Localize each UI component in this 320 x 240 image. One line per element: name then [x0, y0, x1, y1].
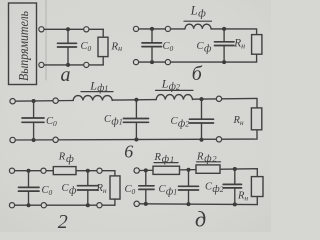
wire: circuit v top rail segment 2 [112, 99, 156, 102]
wire: circuit d bottom rail [139, 197, 257, 205]
capacitor C0 (circuit d) [139, 170, 154, 204]
wire: circuit b bottom rail [136, 54, 257, 62]
terminal: circuit g input bottom [9, 203, 14, 208]
terminal: circuit v second bottom [53, 137, 58, 142]
capacitor Cf1 (circuit d) [179, 170, 199, 204]
node: circuit g C0 bottom junction [27, 203, 31, 207]
terminal: circuit b input bottom [133, 60, 138, 65]
underline of Rf2 label [197, 161, 221, 163]
resistor Rn (circuit d) [251, 177, 263, 197]
terminal: circuit v output bottom [216, 137, 221, 142]
terminal: circuit v second top [53, 98, 58, 103]
wire: circuit d top rail [139, 169, 257, 177]
terminal: circuit b second top [165, 26, 170, 31]
resistor Rf2 (circuit d) [196, 165, 220, 173]
terminal: circuit v input top [10, 99, 15, 104]
capacitor C0 (circuit a) [58, 29, 77, 65]
inductor Lf (circuit b) [185, 24, 211, 29]
capacitor Cf1 (circuit v) [123, 100, 148, 140]
wire: circuit v bottom rail [13, 130, 257, 140]
node: circuit d Cf2 top junction [233, 167, 237, 171]
terminal: circuit v input bottom [10, 137, 15, 142]
wire: circuit v top rail segment 1 [13, 100, 74, 103]
node: circuit d C0 top junction [144, 168, 148, 172]
inductor Lf1 (circuit v) [73, 96, 112, 101]
capacitor Cf (circuit b) [215, 29, 235, 62]
node: circuit g Cf bottom junction [86, 203, 90, 207]
capacitor Cf2 (circuit d) [223, 169, 241, 204]
capacitor C0 (circuit g) [19, 171, 40, 206]
node: circuit a C0 bottom junction [66, 63, 70, 67]
svg-text:д: д [195, 207, 206, 232]
node: circuit g Cf top junction [86, 169, 90, 173]
underline of Lf2 label [156, 89, 194, 91]
svg-text:Выпрямитель: Выпрямитель [16, 11, 31, 81]
rectifier box (Выпрямитель) [9, 3, 37, 85]
node: circuit v Cf2 top junction [200, 97, 204, 101]
terminal: circuit a input top [39, 27, 44, 32]
resistor Rf (circuit g) [53, 167, 76, 175]
inductor Lf2 (circuit v) [156, 95, 192, 100]
terminal: circuit g second bottom [41, 203, 46, 208]
wire: circuit a bottom rail [41, 64, 103, 66]
node: circuit v Cf2 bottom junction [200, 138, 204, 142]
resistor Rn (circuit g) [110, 171, 120, 206]
node: circuit a C0 top junction [66, 27, 70, 31]
svg-text:6: 6 [124, 141, 133, 161]
node: circuit v Cf1 bottom junction [134, 138, 138, 142]
node: circuit b Cf top junction [222, 27, 226, 31]
paper crease line [45, 0, 47, 80]
node: circuit g C0 top junction [27, 169, 31, 173]
svg-text:б: б [192, 63, 203, 85]
terminal: circuit v output top [216, 96, 221, 101]
terminal: circuit d input top [134, 168, 139, 173]
capacitor C0 (circuit b) [142, 29, 162, 62]
terminal: circuit a input bottom [39, 62, 44, 67]
capacitor C0 (circuit v) [22, 101, 44, 140]
terminal: circuit a output top [84, 27, 89, 32]
node: circuit d C0 bottom junction [144, 202, 148, 206]
terminal: circuit g output bottom [97, 203, 102, 208]
wire: circuit b top rail left [136, 28, 185, 30]
resistor Rn (circuit b) [252, 35, 262, 55]
node: circuit v C0 top junction [32, 99, 36, 103]
resistor Rn (circuit v) [251, 108, 261, 130]
node: circuit b C0 top junction [150, 27, 154, 31]
wire: circuit b top rail right [211, 29, 257, 35]
node: circuit b Cf bottom junction [222, 60, 226, 64]
resistor Rf1 (circuit d) [153, 166, 180, 174]
underline of Rf1 label [154, 162, 178, 164]
node: circuit v Cf1 top junction [134, 98, 138, 102]
svg-text:2: 2 [58, 211, 68, 232]
node: circuit d Cf1 bottom junction [187, 202, 191, 206]
node: circuit v C0 bottom junction [32, 138, 36, 142]
node: circuit d Cf2 bottom junction [233, 202, 237, 206]
terminal: circuit d input bottom [134, 201, 139, 206]
underline of Lf1 label [81, 91, 113, 93]
wire: circuit g bottom rail [12, 204, 115, 206]
capacitor Cf2 (circuit v) [190, 99, 214, 140]
underline of Lf label [184, 20, 212, 22]
resistor Rn (circuit a) [98, 29, 108, 65]
terminal: circuit a output bottom [84, 62, 89, 67]
svg-text:а: а [61, 64, 71, 86]
wire: circuit g top rail [12, 170, 115, 172]
wire: circuit a top rail [41, 28, 103, 30]
node: circuit d Cf1 top junction [187, 168, 191, 172]
node: circuit b C0 bottom junction [150, 60, 154, 64]
terminal: circuit g second top [41, 168, 46, 173]
terminal: circuit b second bottom [165, 60, 170, 65]
terminal: circuit g input top [9, 168, 14, 173]
terminal: circuit g output top [97, 168, 102, 173]
terminal: circuit b input top [133, 26, 138, 31]
wire: circuit v top rail segment 3 [193, 98, 258, 108]
capacitor Cf (circuit g) [78, 171, 99, 206]
